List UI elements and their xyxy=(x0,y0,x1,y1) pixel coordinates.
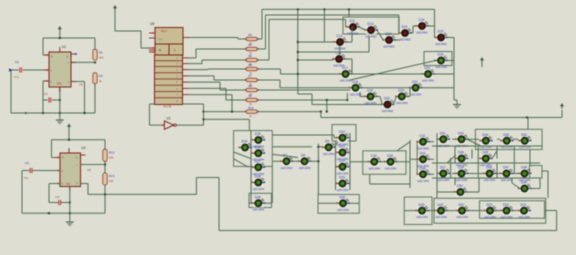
svg-text:R7: R7 xyxy=(248,74,252,78)
svg-text:D45: D45 xyxy=(419,203,425,207)
svg-text:D11: D11 xyxy=(350,19,356,23)
svg-text:LED-GRN: LED-GRN xyxy=(299,166,311,170)
svg-text:D50: D50 xyxy=(457,184,463,188)
svg-text:D30: D30 xyxy=(384,97,390,101)
svg-text:D16: D16 xyxy=(438,53,444,57)
svg-text:R9: R9 xyxy=(248,94,252,98)
svg-text:LED-RED: LED-RED xyxy=(365,35,377,39)
svg-text:LED-RED: LED-RED xyxy=(383,45,395,49)
svg-text:LED-GRN: LED-GRN xyxy=(501,215,513,219)
svg-text:U2: U2 xyxy=(167,117,171,121)
svg-text:D36: D36 xyxy=(458,151,464,155)
svg-text:R12: R12 xyxy=(109,150,115,154)
svg-text:LED-RED: LED-RED xyxy=(347,32,359,36)
svg-text:CLK: CLK xyxy=(158,39,163,41)
svg-text:D01: D01 xyxy=(521,203,527,207)
svg-text:4017: 4017 xyxy=(161,29,168,33)
svg-text:LED-GRN: LED-GRN xyxy=(417,146,429,150)
svg-text:2k4: 2k4 xyxy=(99,55,104,59)
svg-text:D00: D00 xyxy=(340,196,346,200)
svg-text:10k: 10k xyxy=(109,179,114,183)
svg-text:C1: C1 xyxy=(15,60,19,64)
svg-text:D39: D39 xyxy=(458,166,464,170)
svg-text:LED-GRN: LED-GRN xyxy=(435,215,447,219)
svg-text:D19: D19 xyxy=(367,89,373,93)
svg-text:4017B: 4017B xyxy=(163,104,171,108)
svg-text:LED-GRN: LED-GRN xyxy=(337,171,349,175)
svg-text:R4: R4 xyxy=(248,43,252,47)
svg-text:D14: D14 xyxy=(402,25,408,29)
svg-text:D28: D28 xyxy=(255,175,261,179)
svg-text:D43: D43 xyxy=(503,133,509,137)
svg-text:D13: D13 xyxy=(368,22,374,26)
svg-text:C45: C45 xyxy=(482,151,488,155)
svg-text:555: 555 xyxy=(57,82,62,86)
svg-text:U5: U5 xyxy=(150,22,154,26)
svg-text:D02: D02 xyxy=(503,203,509,207)
svg-text:CM: CM xyxy=(87,169,91,172)
svg-text:R3: R3 xyxy=(248,33,252,37)
svg-text:LED-GRN: LED-GRN xyxy=(437,178,449,182)
svg-text:D48: D48 xyxy=(521,166,527,170)
svg-text:D10: D10 xyxy=(339,130,345,134)
svg-text:C31: C31 xyxy=(420,134,426,138)
svg-text:LED-GRN: LED-GRN xyxy=(337,208,349,212)
svg-text:LED-GRN: LED-GRN xyxy=(417,179,429,183)
svg-text:LED-GRN: LED-GRN xyxy=(340,79,352,83)
svg-text:D03: D03 xyxy=(487,203,493,207)
svg-text:LED-RED: LED-RED xyxy=(399,38,411,42)
svg-text:D15: D15 xyxy=(438,30,444,34)
svg-text:D41: D41 xyxy=(459,203,465,207)
svg-text:D26: D26 xyxy=(255,145,261,149)
svg-text:LED-GRN: LED-GRN xyxy=(350,92,362,96)
svg-text:LED-GRN: LED-GRN xyxy=(385,166,397,170)
svg-text:LED-GRN: LED-GRN xyxy=(253,187,265,191)
svg-text:D34: D34 xyxy=(420,151,426,155)
svg-text:D31: D31 xyxy=(440,131,446,135)
svg-text:D46: D46 xyxy=(486,166,492,170)
svg-text:C2: C2 xyxy=(44,92,48,96)
svg-text:LED-GRN: LED-GRN xyxy=(501,178,513,182)
svg-text:LED-GRN: LED-GRN xyxy=(396,101,408,105)
svg-text:LED-RED: LED-RED xyxy=(416,31,428,35)
svg-text:D22: D22 xyxy=(425,66,431,70)
svg-text:C14: C14 xyxy=(337,34,343,38)
svg-text:D33: D33 xyxy=(339,176,345,180)
svg-text:D37: D37 xyxy=(440,166,446,170)
svg-text:CM: CM xyxy=(79,84,83,87)
svg-text:D38: D38 xyxy=(420,166,426,170)
svg-text:LED-RED: LED-RED xyxy=(382,109,394,113)
svg-text:R6: R6 xyxy=(248,63,252,67)
svg-text:D23: D23 xyxy=(339,145,345,149)
svg-text:R13: R13 xyxy=(109,174,115,178)
svg-text:D25: D25 xyxy=(255,132,261,136)
svg-text:LED-GRN: LED-GRN xyxy=(484,178,496,182)
svg-text:LED-GRN: LED-GRN xyxy=(281,166,293,170)
svg-text:D27: D27 xyxy=(255,160,261,164)
svg-text:R5: R5 xyxy=(248,54,252,58)
svg-text:D24: D24 xyxy=(242,140,248,144)
svg-text:R2: R2 xyxy=(99,74,103,78)
svg-text:LED-GRN: LED-GRN xyxy=(456,215,468,219)
svg-text:D21: D21 xyxy=(412,80,418,84)
svg-text:C4: C4 xyxy=(56,195,60,199)
svg-text:LED-RED: LED-RED xyxy=(435,42,447,46)
svg-text:D20: D20 xyxy=(398,89,404,93)
svg-text:U3: U3 xyxy=(82,146,86,150)
svg-text:C30: C30 xyxy=(371,154,377,158)
svg-text:Q: Q xyxy=(76,158,78,160)
svg-text:D42: D42 xyxy=(438,203,444,207)
svg-text:D9: D9 xyxy=(325,140,329,144)
svg-text:LED-GRN: LED-GRN xyxy=(368,166,380,170)
svg-text:D05: D05 xyxy=(255,195,261,199)
svg-text:D17: D17 xyxy=(342,66,348,70)
svg-text:555: 555 xyxy=(66,183,71,186)
svg-text:C24: C24 xyxy=(419,18,425,22)
svg-text:R1: R1 xyxy=(99,50,103,54)
svg-text:47u: 47u xyxy=(24,177,29,180)
svg-text:D29: D29 xyxy=(339,159,345,163)
svg-text:D8: D8 xyxy=(301,154,305,158)
svg-text:LED-GRN: LED-GRN xyxy=(422,79,434,83)
svg-text:LED-GRN: LED-GRN xyxy=(323,152,335,156)
svg-text:LED-GRN: LED-GRN xyxy=(410,92,422,96)
svg-text:D35: D35 xyxy=(387,154,393,158)
svg-text:R10: R10 xyxy=(248,106,254,110)
svg-text:D49: D49 xyxy=(521,181,527,185)
svg-text:LED-GRN: LED-GRN xyxy=(253,208,265,212)
svg-text:D32: D32 xyxy=(458,131,464,135)
svg-text:LED-GRN: LED-GRN xyxy=(518,215,530,219)
svg-text:D40: D40 xyxy=(521,133,527,137)
svg-text:Q: Q xyxy=(67,57,69,59)
svg-text:10k: 10k xyxy=(109,155,114,159)
svg-text:LED-GRN: LED-GRN xyxy=(456,178,468,182)
svg-text:D12: D12 xyxy=(386,32,392,36)
svg-text:D18: D18 xyxy=(352,80,358,84)
svg-text:LED-GRN: LED-GRN xyxy=(416,215,428,219)
svg-text:D44: D44 xyxy=(482,133,488,137)
svg-text:LED-GRN: LED-GRN xyxy=(484,215,496,219)
svg-text:4.7u: 4.7u xyxy=(14,76,19,79)
svg-text:U1: U1 xyxy=(62,45,66,49)
svg-text:C3: C3 xyxy=(25,161,29,165)
svg-text:LED-GRN: LED-GRN xyxy=(337,188,349,192)
svg-text:D47: D47 xyxy=(503,166,509,170)
svg-text:R8: R8 xyxy=(248,84,252,88)
svg-text:&: & xyxy=(159,48,161,52)
